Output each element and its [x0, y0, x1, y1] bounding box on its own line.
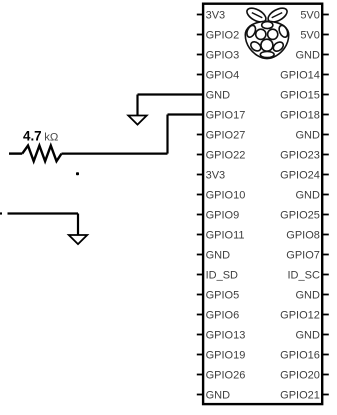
- pin 25 GND: [197, 254, 203, 256]
- logo hole center: [261, 39, 273, 51]
- svg-text:3V3: 3V3: [206, 169, 226, 181]
- svg-text:GPIO5: GPIO5: [206, 289, 240, 301]
- pin 35 GPIO19: [197, 354, 203, 356]
- pin 29 GPIO5: [197, 294, 203, 296]
- svg-text:GPIO6: GPIO6: [206, 309, 240, 321]
- logo left leaf slit: [252, 13, 262, 18]
- logo hole top: [262, 22, 273, 29]
- svg-text:GND: GND: [295, 289, 320, 301]
- svg-text:GPIO25: GPIO25: [280, 209, 320, 221]
- pin 24 GPIO8: [322, 234, 329, 236]
- logo hole mid-left: [256, 29, 266, 39]
- wire: down to ground symbol: [136, 95, 138, 116]
- svg-text:3V3: 3V3: [206, 9, 226, 21]
- wire: GND pin leftwards: [138, 93, 204, 95]
- pin 15 GPIO22: [197, 154, 203, 156]
- pin 30 GND: [322, 294, 329, 296]
- svg-text:4.7: 4.7: [23, 129, 42, 144]
- pin 39 GND: [197, 394, 203, 396]
- svg-text:GPIO14: GPIO14: [280, 69, 320, 81]
- ground symbol (upper): [128, 116, 146, 125]
- svg-text:GPIO23: GPIO23: [280, 149, 320, 161]
- left pin stubs: [197, 15, 203, 395]
- pin 8 GPIO14: [322, 74, 329, 76]
- svg-text:GPIO3: GPIO3: [206, 49, 240, 61]
- left pin labels: [206, 9, 246, 401]
- svg-text:GPIO17: GPIO17: [206, 109, 246, 121]
- resistor R1: [9, 146, 62, 162]
- svg-text:GPIO2: GPIO2: [206, 29, 240, 41]
- svg-text:GND: GND: [295, 129, 320, 141]
- pin 28 ID_SC: [322, 274, 329, 276]
- wire: down to lower ground: [77, 214, 79, 236]
- pin 2 5V0: [322, 14, 329, 16]
- svg-text:5V0: 5V0: [300, 29, 320, 41]
- logo hole lower-right: [272, 40, 285, 53]
- svg-text:GPIO21: GPIO21: [280, 389, 320, 401]
- svg-text:GPIO4: GPIO4: [206, 69, 240, 81]
- pin 40 GPIO21: [322, 394, 329, 396]
- pin 36 GPIO16: [322, 354, 329, 356]
- pin 22 GPIO25: [322, 214, 329, 216]
- pin 21 GPIO9: [197, 214, 203, 216]
- svg-text:GPIO8: GPIO8: [286, 229, 320, 241]
- pin 16 GPIO23: [322, 154, 329, 156]
- logo left leaf: [245, 5, 268, 25]
- svg-text:GND: GND: [295, 49, 320, 61]
- resistor R1 value label 4.7 kΩ: [23, 129, 58, 144]
- svg-text:GPIO20: GPIO20: [280, 369, 320, 381]
- pin 4 5V0: [322, 34, 329, 36]
- svg-text:GND: GND: [206, 389, 231, 401]
- pin 38 GPIO20: [322, 374, 329, 376]
- logo right leaf: [266, 5, 289, 25]
- svg-text:GPIO16: GPIO16: [280, 349, 320, 361]
- pin 27 ID_SD: [197, 274, 203, 276]
- pin 23 GPIO11: [197, 234, 203, 236]
- svg-text:GND: GND: [295, 189, 320, 201]
- svg-text:GND: GND: [295, 329, 320, 341]
- pin 33 GPIO13: [197, 334, 203, 336]
- raspberry pi logo on U1: [245, 5, 290, 58]
- pin 32 GPIO12: [322, 314, 329, 316]
- svg-text:GND: GND: [206, 249, 231, 261]
- svg-text:GPIO18: GPIO18: [280, 109, 320, 121]
- svg-text:GPIO26: GPIO26: [206, 369, 246, 381]
- pin 37 GPIO26: [197, 374, 203, 376]
- pin 34 GND: [322, 334, 329, 336]
- pin 26 GPIO7: [322, 254, 329, 256]
- wire: GPIO17 row into chip: [168, 113, 204, 115]
- logo hole upper-right: [277, 24, 289, 38]
- pin 14 GND: [322, 134, 329, 136]
- wire stub at left edge: [0, 212, 2, 214]
- wire: vertical up to GPIO17 row: [166, 115, 168, 154]
- logo hole mid-right: [268, 29, 278, 39]
- svg-text:GND: GND: [206, 89, 231, 101]
- IC U1 Raspberry Pi body: [203, 4, 322, 404]
- logo right leaf slit: [272, 13, 283, 18]
- pin 7 GPIO4: [197, 74, 203, 76]
- pin 13 GPIO27: [197, 134, 203, 136]
- pin 9 GND: [197, 94, 203, 96]
- logo hole bottom: [260, 51, 274, 57]
- pin 3 GPIO2: [197, 34, 203, 36]
- svg-text:GPIO22: GPIO22: [206, 149, 246, 161]
- pin 12 GPIO18: [322, 114, 329, 116]
- svg-text:GPIO7: GPIO7: [286, 249, 320, 261]
- pin 17 3V3: [197, 174, 203, 176]
- logo berry outline: [245, 21, 288, 58]
- svg-text:GPIO11: GPIO11: [206, 229, 245, 241]
- pin 31 GPIO6: [197, 314, 203, 316]
- pin 10 GPIO15: [322, 94, 329, 96]
- svg-text:GPIO27: GPIO27: [206, 129, 246, 141]
- ground symbol (lower): [69, 235, 87, 244]
- pin 5 GPIO3: [197, 54, 203, 56]
- pin 11 GPIO17: [197, 114, 203, 116]
- wire: bottom horizontal: [8, 212, 79, 214]
- wire: resistor to GPIO17 corner: [62, 153, 168, 155]
- svg-text:ID_SD: ID_SD: [206, 269, 238, 281]
- svg-text:GPIO24: GPIO24: [280, 169, 320, 181]
- svg-text:ID_SC: ID_SC: [287, 269, 319, 281]
- svg-text:5V0: 5V0: [300, 9, 320, 21]
- svg-text:GPIO13: GPIO13: [206, 329, 246, 341]
- pin 18 GPIO24: [322, 174, 329, 176]
- svg-text:GPIO9: GPIO9: [206, 209, 240, 221]
- svg-text:GPIO15: GPIO15: [280, 89, 320, 101]
- pin 19 GPIO10: [197, 194, 203, 196]
- svg-text:kΩ: kΩ: [44, 132, 58, 144]
- logo hole lower-left: [249, 40, 262, 53]
- resistor R1 label dot: [76, 172, 79, 175]
- svg-text:GPIO10: GPIO10: [206, 189, 246, 201]
- pin 1 3V3: [197, 14, 203, 16]
- svg-text:GPIO12: GPIO12: [280, 309, 320, 321]
- right pin stubs: [322, 15, 329, 395]
- svg-text:GPIO19: GPIO19: [206, 349, 246, 361]
- logo hole upper-left: [245, 24, 257, 38]
- right pin labels: [280, 9, 320, 401]
- pin 20 GND: [322, 194, 329, 196]
- pin 6 GND: [322, 54, 329, 56]
